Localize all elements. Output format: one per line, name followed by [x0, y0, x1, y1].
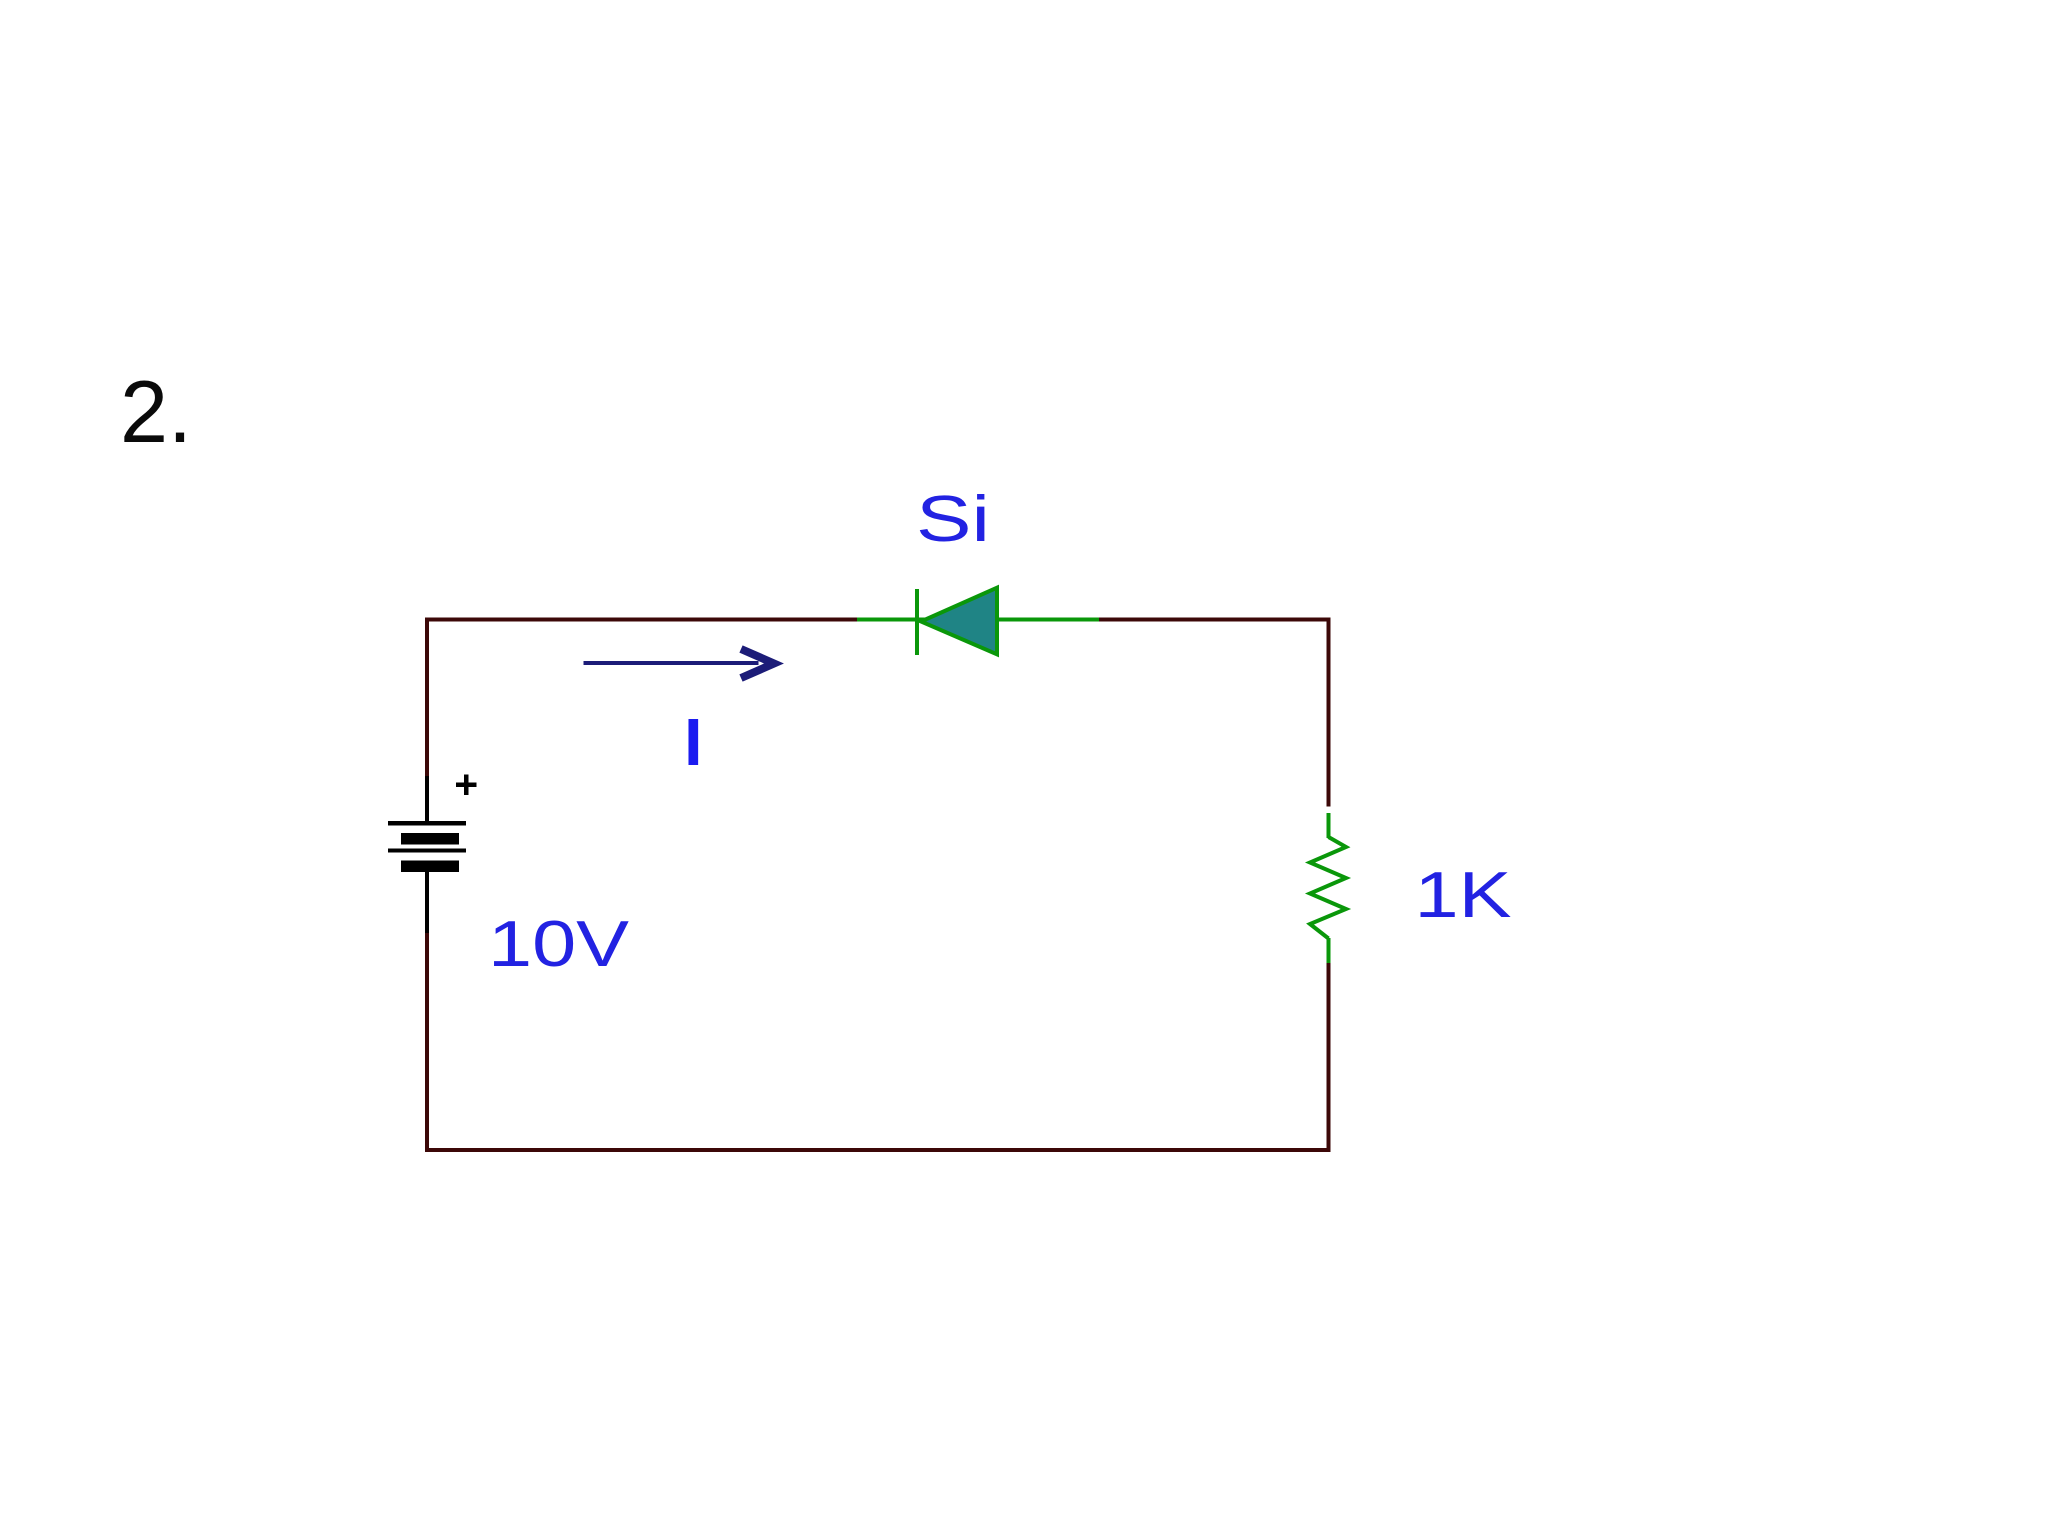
battery B1 plate 4 (short thick) — [401, 861, 459, 873]
resistor R1 bottom lead (green) — [1327, 938, 1331, 963]
wire left upper (maroon) — [425, 618, 429, 777]
wire right lower (maroon) — [1327, 962, 1331, 1152]
wire top green segment at diode — [857, 618, 1099, 622]
svg-text:2.: 2. — [120, 362, 192, 461]
wire left battery lead lower (black) — [425, 872, 429, 933]
svg-text:I: I — [684, 705, 703, 780]
svg-text:10V: 10V — [488, 907, 630, 980]
wire left lower (maroon) — [425, 933, 429, 1152]
current arrow — [584, 661, 759, 665]
svg-text:1K: 1K — [1415, 858, 1512, 931]
battery B1 plate 2 (short thick) — [401, 833, 459, 845]
battery plus sign — [456, 783, 477, 788]
diode D1 cathode bar — [915, 589, 919, 655]
wire bottom (maroon) — [425, 1148, 1330, 1152]
battery B1 plate 1 (long thin, +) — [388, 821, 466, 826]
battery B1 plate 3 (long thin) — [388, 849, 466, 853]
wire left battery lead upper (black) — [425, 776, 429, 822]
wire right upper (maroon) — [1327, 618, 1331, 807]
svg-text:Si: Si — [916, 482, 990, 555]
resistor R1 zigzag — [1310, 837, 1346, 939]
diode D1 triangle — [921, 588, 997, 655]
resistor R1 top lead (green) — [1327, 813, 1331, 838]
wire top (maroon) — [425, 618, 1330, 622]
